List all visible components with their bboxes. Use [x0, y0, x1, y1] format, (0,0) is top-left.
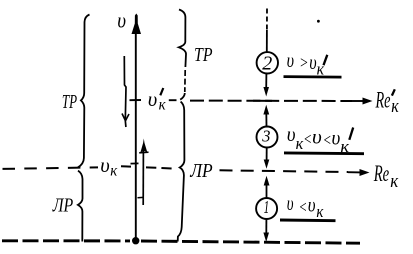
svg-text:Re: Re: [375, 88, 391, 113]
svg-text:1: 1: [264, 197, 270, 217]
circle 3: [257, 127, 278, 148]
middle dashed line between v_k label and LR brace: [121, 165, 131, 167]
v axis origin dot: [132, 237, 139, 244]
up arrow (right of axis): [142, 150, 144, 205]
svg-text:>: >: [299, 53, 308, 72]
vertical dashed arrow column: top segment: [266, 9, 268, 31]
svg-text:ТР: ТР: [62, 92, 77, 113]
svg-text:к: к: [316, 202, 324, 221]
middle dashed line right of LR label to Re_k arrow: [220, 170, 349, 172]
svg-text:ЛР: ЛР: [189, 161, 212, 182]
up arrow small tail tick: [138, 196, 144, 198]
svg-text:υ: υ: [148, 87, 158, 111]
left brace TR (top to v_k line): [78, 15, 90, 168]
svg-text:υ: υ: [309, 52, 316, 74]
svg-text:ЛР: ЛР: [52, 196, 73, 217]
svg-text:υ: υ: [332, 127, 341, 149]
arrow down from circle 3 to Re_k line: [266, 148, 268, 161]
svg-text:υ: υ: [100, 153, 110, 177]
circle 1: [256, 198, 277, 219]
svg-text:<: <: [299, 197, 308, 216]
svg-text:<: <: [323, 131, 332, 150]
upper dashed line right of brace to Re_k' arrow: [190, 100, 352, 102]
arrow up from Re_k' line to circle 3: [265, 112, 267, 127]
circle 2: [257, 52, 278, 73]
svg-text:υ: υ: [287, 50, 294, 72]
arrow up from Re_k line to circle 1: [266, 183, 268, 198]
right brace TR (top to v_k' line): [179, 10, 186, 68]
svg-text:Re: Re: [373, 161, 389, 186]
v axis arrowhead: [132, 14, 142, 35]
arrow down from circle 1 to bottom line: [265, 219, 267, 233]
svg-text:к: к: [390, 171, 399, 192]
scan speck dot top right: [317, 20, 320, 23]
svg-text:υ: υ: [117, 7, 126, 32]
svg-text:υ: υ: [287, 193, 294, 215]
left brace LR (v_k line to bottom): [78, 171, 83, 242]
svg-text:к: к: [159, 96, 166, 113]
Re_k' arrow shaft and head: [352, 100, 365, 102]
v axis tick at v_k level: [131, 162, 139, 164]
right brace LR (v_k' line to bottom): [178, 102, 185, 242]
svg-text:υ: υ: [308, 195, 316, 217]
svg-text:2: 2: [262, 52, 272, 74]
prime of Re_k': [392, 89, 395, 95]
svg-text:<: <: [303, 129, 312, 148]
upper dashed line dash before brace: [169, 99, 177, 101]
Re_k arrow shaft and head: [348, 171, 362, 173]
svg-text:3: 3: [261, 126, 270, 145]
svg-text:ТР: ТР: [194, 45, 213, 66]
bottom dashed line: [2, 241, 360, 243]
prime of v_k': [160, 88, 163, 95]
svg-text:к: к: [110, 163, 117, 180]
svg-text:к: к: [391, 96, 399, 117]
svg-text:υ: υ: [287, 124, 296, 146]
down arrow (left of axis): [124, 56, 126, 127]
arrow down from circle 2 to Re_k' line: [265, 74, 267, 89]
svg-text:υ: υ: [312, 126, 322, 148]
middle dashed line left of v_k label: [3, 167, 99, 169]
upper dashed line tick across axis: [130, 99, 142, 101]
v axis line: [135, 33, 137, 240]
